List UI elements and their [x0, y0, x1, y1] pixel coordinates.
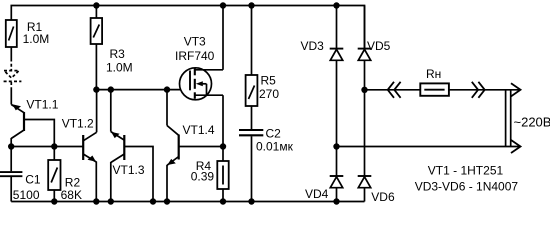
- diode VD5: [358, 6, 372, 177]
- svg-text:0.01мк: 0.01мк: [256, 140, 294, 154]
- svg-text:R5: R5: [261, 74, 277, 88]
- junction dots bottom bus: [51, 198, 340, 204]
- svg-text:VT1.2: VT1.2: [62, 117, 94, 131]
- arrow terminal top: [511, 83, 521, 96]
- label R4 0.39: [191, 159, 215, 184]
- svg-text:270: 270: [259, 87, 279, 101]
- svg-text:1.0M: 1.0M: [106, 61, 133, 75]
- label R2 68K: [61, 175, 82, 201]
- wire bridge left column: [336, 6, 338, 49]
- resistor Rn (load): [420, 83, 449, 95]
- wire top bus: [11, 6, 364, 49]
- wire AC top (to load): [365, 89, 520, 91]
- svg-text:C1: C1: [25, 173, 41, 187]
- label C2 0.01mk: [256, 127, 294, 154]
- resistor R2: [48, 147, 60, 202]
- photodiode (dashed) below R1: [4, 59, 22, 90]
- svg-text:VT1.4: VT1.4: [183, 123, 215, 137]
- capacitor C1: [0, 147, 22, 202]
- transistor VT1.2: [83, 90, 96, 202]
- junction dot bridge AC bottom: [333, 143, 339, 149]
- svg-text:VD6: VD6: [371, 190, 395, 204]
- junction dot bridge AC top: [361, 87, 367, 93]
- diode VD6: [358, 176, 372, 202]
- svg-text:Rн: Rн: [426, 67, 441, 81]
- arrow terminal bottom: [511, 140, 521, 153]
- junction dots node row: [8, 143, 58, 149]
- svg-text:IRF740: IRF740: [175, 49, 215, 63]
- diode VD3: [330, 49, 344, 147]
- svg-text:VT1.3: VT1.3: [113, 163, 145, 177]
- svg-text:VD3-VD6 - 1N4007: VD3-VD6 - 1N4007: [415, 180, 519, 194]
- svg-text:VD3: VD3: [301, 39, 325, 53]
- svg-text:VD4: VD4: [305, 187, 329, 201]
- diode VD4: [330, 147, 344, 202]
- label R3 1.0M: [106, 47, 133, 75]
- break marks left: [388, 82, 401, 98]
- svg-text:C2: C2: [266, 127, 282, 141]
- junction dots gate row: [93, 86, 170, 92]
- label R1 1.0M: [23, 20, 50, 46]
- svg-text:0.39: 0.39: [191, 170, 215, 184]
- resistor R5: [246, 6, 258, 130]
- wire bottom bus: [11, 201, 364, 203]
- resistor R3: [91, 6, 103, 90]
- svg-text:VT1 - 1НТ251: VT1 - 1НТ251: [428, 163, 504, 177]
- svg-text:~220В: ~220В: [514, 115, 550, 130]
- transistor VT1.1: [11, 104, 54, 146]
- svg-text:VT3: VT3: [184, 34, 206, 48]
- svg-text:VD5: VD5: [367, 39, 391, 53]
- label R5 270: [259, 74, 279, 102]
- resistor R1: [6, 20, 17, 59]
- break marks right: [472, 82, 485, 98]
- svg-text:VT1.1: VT1.1: [26, 98, 58, 112]
- transistor VT1.3: [111, 90, 153, 202]
- label C1 5100: [13, 173, 41, 202]
- svg-text:R3: R3: [110, 47, 126, 61]
- transistor VT1.4: [167, 90, 223, 202]
- svg-text:1.0M: 1.0M: [23, 32, 50, 46]
- capacitor C2: [239, 130, 263, 202]
- wire node row (C1/R2/VT1.2 base): [11, 146, 83, 148]
- junction dot VT3 source / R4 / VT1.4 base: [220, 143, 226, 149]
- mains cable double line: [506, 90, 511, 147]
- wire photodiode to VT1.1 emitter: [10, 89, 12, 105]
- junction dots top bus: [93, 2, 339, 8]
- svg-text:68K: 68K: [61, 188, 82, 202]
- svg-text:5100: 5100: [13, 188, 40, 202]
- wire AC bottom: [337, 146, 520, 148]
- mosfet VT3: [180, 6, 224, 147]
- label VT3 IRF740: [175, 34, 215, 63]
- resistor R4: [217, 147, 228, 202]
- wire gate row: [96, 89, 190, 91]
